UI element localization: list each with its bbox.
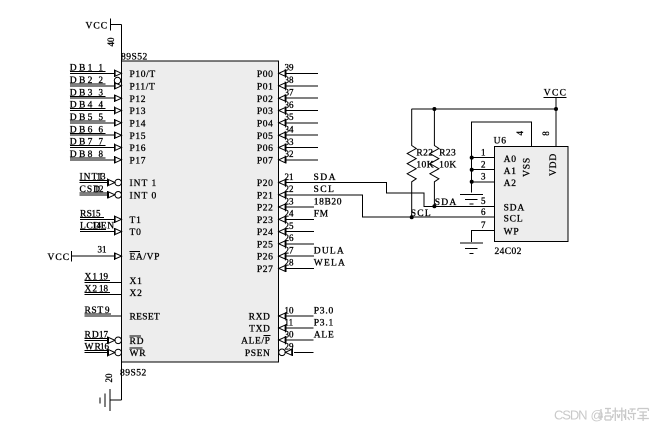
pin 25 arrow — [279, 228, 286, 236]
net label X1 19 — [85, 272, 111, 283]
svg-text:27: 27 — [285, 245, 295, 255]
junction VCC drop — [554, 107, 558, 111]
pin label P27 — [257, 265, 274, 275]
svg-text:32: 32 — [285, 149, 294, 159]
svg-text:29: 29 — [285, 342, 295, 352]
pin label ALE/P — [241, 336, 270, 347]
pin number 24 — [285, 209, 295, 219]
pin number 5 — [99, 112, 104, 122]
net label P3.0 — [314, 306, 334, 316]
pin label X1 — [130, 277, 143, 287]
svg-text:P16: P16 — [130, 144, 147, 154]
wire net DB1 to pin 1 — [70, 72, 114, 74]
svg-text:ALE/P: ALE/P — [241, 337, 270, 347]
svg-text:10: 10 — [285, 305, 295, 315]
svg-text:CSDN: CSDN — [554, 408, 587, 423]
svg-text:SCL: SCL — [504, 215, 524, 225]
svg-text:12: 12 — [95, 184, 104, 194]
wire VCC rail — [412, 108, 556, 110]
svg-text:WP: WP — [504, 228, 520, 238]
pin 27 arrow — [279, 252, 286, 260]
svg-text:P04: P04 — [257, 119, 274, 129]
pin 32 arrow — [279, 156, 286, 164]
wire P26 stub — [286, 255, 314, 257]
svg-text:P10/T: P10/T — [130, 70, 156, 80]
net label DB3 — [70, 88, 106, 98]
pin number 10 — [285, 305, 295, 315]
pin label P24 — [257, 228, 274, 238]
wire WP pin7 to ground — [471, 230, 494, 242]
svg-text:INT 1: INT 1 — [130, 179, 158, 189]
pin label P17 — [130, 156, 147, 166]
svg-text:3: 3 — [481, 172, 486, 182]
net label WELA — [314, 259, 346, 269]
pin label P15 — [130, 132, 147, 142]
pin 26 arrow — [279, 240, 286, 248]
power port VCC (24C02) — [543, 88, 567, 98]
pin number 23 — [285, 196, 295, 206]
wire VCC to rail — [555, 97, 557, 109]
pin 2 arrow — [114, 82, 121, 90]
label 89S52 (bottom) — [120, 369, 147, 379]
wire P00 pin 39 — [286, 72, 318, 74]
svg-text:ALE: ALE — [314, 330, 335, 340]
24C02 pin 1 number — [481, 147, 486, 157]
pin number 25 — [285, 221, 295, 231]
wire net RST to pin 9 — [85, 315, 122, 317]
wire net LCDEN to pin 14 — [80, 231, 114, 233]
24C02 pin 7 number — [481, 220, 486, 230]
svg-text:36: 36 — [285, 100, 295, 110]
pin 29 bubble+arrow — [279, 349, 293, 357]
pin number 11 — [285, 317, 294, 327]
svg-text:P13: P13 — [130, 107, 147, 117]
net label 18B20 — [314, 197, 342, 207]
pin number 4 — [99, 100, 104, 110]
pin label TXD — [249, 325, 270, 335]
pin label P05 — [257, 132, 274, 142]
svg-text:RESET: RESET — [130, 313, 161, 323]
svg-text:P00: P00 — [257, 70, 274, 80]
net label DB6 — [70, 125, 106, 135]
pin number 39 — [285, 63, 295, 73]
net label ALE — [314, 330, 335, 340]
label R23 value 10K — [439, 160, 457, 170]
24C02 pin label SCL — [504, 215, 524, 225]
svg-text:89S52: 89S52 — [121, 53, 148, 63]
svg-text:SDA: SDA — [314, 173, 338, 183]
net label RST 9 — [85, 305, 112, 316]
junction A0 — [470, 156, 474, 160]
svg-text:SDA: SDA — [504, 204, 525, 214]
net label DULA — [314, 246, 345, 256]
pin 16 bubble+arrow — [108, 349, 122, 357]
resistor R22 — [407, 109, 416, 217]
svg-text:21: 21 — [285, 172, 294, 182]
svg-text:A2: A2 — [504, 179, 517, 189]
pin number 31 — [98, 245, 107, 255]
pin label PSEN — [245, 349, 271, 359]
net label DB4 — [70, 101, 106, 111]
svg-text:22: 22 — [285, 184, 294, 194]
junction SCL/R22 — [410, 215, 414, 219]
svg-text:2: 2 — [481, 159, 486, 169]
pin 10 arrow — [279, 312, 286, 320]
net label X2 18 — [85, 284, 111, 295]
24C02 pin label WP — [504, 228, 520, 238]
label R22 value 10K — [416, 160, 434, 170]
wire VSS pin4 bracket — [472, 122, 532, 193]
pin label P26 — [257, 253, 274, 263]
pin label P12 — [130, 95, 147, 105]
svg-text:4: 4 — [515, 130, 525, 135]
pin label RD (overline) — [130, 336, 145, 347]
24C02 pin label SDA — [504, 204, 525, 214]
net label INT1 — [80, 173, 111, 183]
svg-text:3: 3 — [99, 87, 104, 97]
24C02 pin 6 number — [481, 207, 486, 217]
svg-text:P26: P26 — [257, 253, 274, 263]
pin label P10 — [130, 70, 156, 80]
svg-text:P3.0: P3.0 — [314, 306, 334, 316]
net label CSD — [80, 185, 109, 195]
svg-text:P15: P15 — [130, 132, 147, 142]
svg-text:VSS: VSS — [523, 157, 533, 177]
pin number 3 — [99, 87, 104, 97]
wire A2 pin3 — [472, 181, 495, 183]
svg-text:P12: P12 — [130, 95, 147, 105]
svg-text:DULA: DULA — [314, 246, 345, 256]
pin number 35 — [285, 112, 295, 122]
pin number 28 — [285, 258, 295, 268]
pin number 34 — [285, 125, 295, 135]
label 89S52 (top) — [121, 53, 148, 63]
pin 30 arrow — [279, 336, 286, 344]
svg-text:6: 6 — [99, 124, 104, 134]
svg-text:26: 26 — [285, 233, 295, 243]
pin number 36 — [285, 100, 295, 110]
wire P24 stub — [286, 231, 314, 233]
svg-text:SCL: SCL — [411, 209, 432, 219]
24C02 pin 4 number (rotated) — [515, 130, 525, 135]
pin label P16 — [130, 144, 147, 154]
wire P06 pin 33 — [286, 147, 318, 149]
svg-text:1: 1 — [481, 147, 486, 157]
svg-text:T0: T0 — [130, 228, 142, 238]
wire net RD to pin 17 — [85, 339, 108, 341]
resistor R23 — [430, 109, 439, 206]
svg-text:6: 6 — [481, 207, 486, 217]
svg-text:P14: P14 — [130, 119, 147, 129]
pin label P02 — [257, 95, 274, 105]
svg-text:INT 0: INT 0 — [130, 191, 158, 201]
wire net DB5 to pin 5 — [70, 122, 114, 124]
pin label P06 — [257, 144, 274, 154]
svg-text:PSEN: PSEN — [245, 349, 271, 359]
wire net WR to pin 16 — [85, 352, 108, 354]
pin label P25 — [257, 240, 274, 250]
pin 39 arrow — [279, 70, 286, 78]
pin number 37 — [285, 88, 295, 98]
wire pin 30 stub — [286, 339, 314, 341]
24C02 pin label VDD (rotated) — [549, 153, 559, 176]
pin number 1 — [99, 62, 104, 72]
svg-text:89S52: 89S52 — [120, 369, 147, 379]
pin 13 bubble+arrow — [108, 179, 122, 187]
pin 12 bubble+arrow — [108, 191, 122, 199]
svg-text:13: 13 — [97, 172, 107, 182]
ground (WP) — [460, 243, 483, 254]
svg-text:T1: T1 — [130, 216, 142, 226]
24C02 pin label A2 — [504, 179, 517, 189]
pin label P07 — [257, 156, 274, 166]
svg-text:8: 8 — [541, 131, 551, 136]
pin number 22 — [285, 184, 294, 194]
svg-text:P03: P03 — [257, 107, 274, 117]
net label P3.1 — [314, 318, 334, 328]
svg-text:24: 24 — [285, 209, 295, 219]
svg-text:33: 33 — [285, 137, 295, 147]
IC U6 24C02 body — [495, 147, 569, 242]
pin 35 arrow — [279, 119, 286, 127]
svg-text:SCL: SCL — [314, 185, 336, 195]
wire net CSD to pin 12 — [80, 194, 108, 196]
wire net INT1 to pin 13 — [80, 182, 108, 184]
pin 33 arrow — [279, 144, 286, 152]
label U6 — [494, 137, 507, 147]
pin number 7 — [99, 137, 104, 147]
watermark CSDN @<fake hanzi> — [554, 408, 649, 423]
wire net DB8 to pin 8 — [70, 159, 114, 161]
net label SCL (at P21) — [314, 185, 336, 195]
svg-text:20: 20 — [104, 373, 114, 383]
svg-text:X2: X2 — [130, 289, 143, 299]
svg-text:18B20: 18B20 — [314, 197, 342, 207]
net label DB7 — [70, 138, 106, 148]
svg-text:EA/VP: EA/VP — [130, 253, 160, 263]
pin 22 arrow — [279, 191, 286, 199]
svg-text:RD: RD — [130, 337, 145, 347]
wire P27 stub — [286, 267, 314, 269]
pin 31 arrow — [114, 252, 121, 260]
wire VCC to pin 40 — [111, 25, 122, 62]
pin label P23 — [257, 216, 274, 226]
net label DB1 — [70, 63, 106, 73]
pin number 40 (rotated) — [106, 37, 116, 47]
pin 28 arrow — [279, 265, 286, 273]
pin 7 arrow — [114, 144, 121, 152]
svg-text:P24: P24 — [257, 228, 274, 238]
pin 15 arrow — [114, 216, 121, 224]
wire net DB6 to pin 6 — [70, 134, 114, 136]
pin number 30 — [285, 329, 295, 339]
label 24C02 — [495, 247, 522, 257]
svg-text:A1: A1 — [504, 167, 517, 177]
pin 5 arrow — [114, 119, 121, 127]
svg-text:23: 23 — [285, 196, 295, 206]
svg-text:P27: P27 — [257, 265, 274, 275]
wire net X2 to pin 18 — [85, 294, 122, 296]
pin 21 arrow — [279, 179, 286, 187]
net label DB8 — [70, 150, 106, 160]
wire net RS to pin 15 — [80, 218, 114, 220]
wire SCL P21 to 24C02 pin6 — [286, 195, 494, 217]
svg-text:U6: U6 — [494, 137, 507, 147]
wire P04 pin 35 — [286, 122, 318, 124]
svg-text:P3.1: P3.1 — [314, 318, 334, 328]
pin label P04 — [257, 119, 274, 129]
wire pin 20 to ground — [110, 362, 122, 400]
wire pin 11 stub — [286, 327, 314, 329]
svg-text:35: 35 — [285, 112, 295, 122]
svg-text:RXD: RXD — [249, 313, 271, 323]
wire net X1 to pin 19 — [85, 282, 122, 284]
pin 37 arrow — [279, 94, 286, 102]
svg-text:P17: P17 — [130, 156, 147, 166]
pin 34 arrow — [279, 131, 286, 139]
svg-text:2: 2 — [99, 75, 104, 85]
svg-text:5: 5 — [481, 196, 486, 206]
svg-text:P25: P25 — [257, 240, 274, 250]
pin number 13 — [97, 172, 107, 182]
pin 38 arrow — [279, 82, 286, 90]
24C02 pin 3 number — [481, 172, 486, 182]
ground (A0-A2/VSS) — [460, 195, 483, 205]
pin number 29 — [285, 342, 295, 352]
wire pin 10 stub — [286, 315, 314, 317]
svg-text:@: @ — [591, 408, 604, 423]
pin label EA/VP — [130, 251, 160, 262]
svg-text:4: 4 — [99, 100, 104, 110]
svg-text:1: 1 — [99, 62, 104, 72]
wire P01 pin 38 — [286, 85, 318, 87]
svg-text:37: 37 — [285, 88, 295, 98]
junction A1 — [470, 168, 474, 172]
svg-text:P23: P23 — [257, 216, 274, 226]
wire pin 29 stub — [294, 351, 314, 353]
pin number 2 — [99, 75, 104, 85]
pin number 21 — [285, 172, 294, 182]
net label LCDEN 14 — [80, 221, 115, 232]
pin number 12 — [95, 184, 104, 194]
svg-text:A0: A0 — [504, 155, 517, 165]
svg-text:SDA: SDA — [435, 198, 458, 208]
pin 17 bubble+arrow — [108, 337, 122, 345]
svg-text:P11/T: P11/T — [130, 82, 156, 92]
pin number 8 — [99, 149, 104, 159]
24C02 pin label VSS (rotated) — [523, 157, 533, 177]
net label RS 15 — [80, 208, 104, 219]
pin number 33 — [285, 137, 295, 147]
wire SDA P20 to 24C02 pin5 — [286, 183, 494, 207]
power port VCC (EA pin) — [48, 251, 72, 263]
svg-text:VDD: VDD — [549, 153, 559, 176]
junction SDA/R23 — [432, 204, 436, 208]
svg-text:7: 7 — [99, 137, 104, 147]
svg-text:28: 28 — [285, 258, 295, 268]
pin label P01 — [257, 82, 274, 92]
pin label RXD — [249, 313, 271, 323]
svg-text:P06: P06 — [257, 144, 274, 154]
pin label P13 — [130, 107, 147, 117]
ground (pin 20) — [100, 389, 110, 411]
pin label X2 — [130, 289, 143, 299]
svg-text:P02: P02 — [257, 95, 274, 105]
svg-text:8: 8 — [99, 149, 104, 159]
pin 24 arrow — [279, 216, 286, 224]
svg-text:WR: WR — [130, 349, 147, 359]
wire A1 pin2 — [472, 169, 495, 171]
net label SDA (mid) — [435, 198, 458, 208]
wire VDD pin8 — [555, 109, 557, 147]
svg-text:VCC: VCC — [48, 253, 71, 263]
net label DB5 — [70, 113, 106, 123]
label R23 — [439, 148, 456, 158]
24C02 pin 8 number (rotated) — [541, 131, 551, 136]
svg-text:11: 11 — [285, 317, 294, 327]
svg-text:10K: 10K — [439, 160, 457, 170]
svg-text:VCC: VCC — [86, 22, 109, 32]
wire net DB3 to pin 3 — [70, 97, 114, 99]
wire VCC to pin 31 — [72, 255, 115, 257]
wire net DB7 to pin 7 — [70, 147, 114, 149]
pin label T1 — [130, 216, 142, 226]
pin label P03 — [257, 107, 274, 117]
svg-text:P22: P22 — [257, 204, 274, 214]
net label SDA (at P20) — [314, 173, 338, 183]
svg-text:40: 40 — [106, 37, 116, 47]
pin label P00 — [257, 70, 274, 80]
bubble artifact near pin 2 — [114, 77, 120, 83]
svg-text:P20: P20 — [257, 179, 274, 189]
svg-text:P21: P21 — [257, 191, 274, 201]
pin label P11 — [130, 82, 156, 92]
pin number 6 — [99, 124, 104, 134]
pin 3 arrow — [114, 94, 121, 102]
svg-text:39: 39 — [285, 63, 295, 73]
pin label P21 — [257, 191, 274, 201]
svg-text:25: 25 — [285, 221, 295, 231]
power port VCC (pin 40) — [86, 19, 111, 32]
junction R23 top — [432, 107, 436, 111]
wire net DB2 to pin 2 — [70, 85, 114, 87]
24C02 pin label A0 — [504, 155, 517, 165]
svg-text:X1: X1 — [130, 277, 143, 287]
svg-text:7: 7 — [481, 220, 486, 230]
wire P25 stub — [286, 243, 314, 245]
pin 11 arrow — [279, 324, 286, 332]
svg-text:31: 31 — [98, 245, 107, 255]
wire P05 pin 34 — [286, 134, 318, 136]
net label SCL (mid) — [411, 209, 432, 219]
svg-text:P01: P01 — [257, 82, 274, 92]
svg-text:30: 30 — [285, 329, 295, 339]
pin 23 arrow — [279, 203, 286, 211]
pin label RESET — [130, 313, 161, 323]
net label FM — [314, 210, 329, 220]
wire P23 stub — [286, 218, 314, 220]
pin number 32 — [285, 149, 294, 159]
pin label WR (overline) — [130, 348, 147, 359]
net label RD 17 — [85, 329, 111, 340]
24C02 pin 5 number — [481, 196, 486, 206]
wire A0 pin1 — [472, 157, 495, 159]
wire P22 stub — [286, 206, 314, 208]
pin 1 arrow — [114, 70, 121, 78]
24C02 pin label A1 — [504, 167, 517, 177]
net label DB2 — [70, 76, 106, 86]
pin 14 arrow — [114, 228, 121, 236]
